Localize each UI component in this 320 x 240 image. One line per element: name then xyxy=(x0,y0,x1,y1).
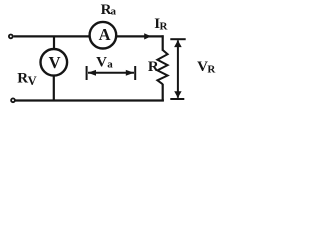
label IR xyxy=(154,16,168,33)
svg-text:V: V xyxy=(28,74,37,88)
voltmeter U2 xyxy=(41,49,68,76)
wire voltmeter branch top xyxy=(53,36,55,49)
svg-text:R: R xyxy=(17,70,28,86)
svg-text:R: R xyxy=(207,64,216,76)
svg-text:V: V xyxy=(49,53,61,72)
label RV xyxy=(17,70,36,88)
wire bottom xyxy=(16,99,164,101)
VR dimension arrow xyxy=(170,39,185,99)
ammeter U1 xyxy=(90,22,117,49)
svg-text:a: a xyxy=(111,5,117,17)
wire resistor to bottom wire xyxy=(162,84,164,101)
svg-text:R: R xyxy=(160,21,169,33)
svg-text:a: a xyxy=(107,58,113,70)
bottom-left terminal xyxy=(11,98,15,102)
label Va xyxy=(96,54,113,70)
svg-text:A: A xyxy=(99,25,111,44)
wire voltmeter branch bottom xyxy=(53,76,55,102)
Va dimension arrow xyxy=(87,66,136,80)
wire top from terminal to ammeter xyxy=(14,35,90,37)
top-left terminal xyxy=(9,35,13,39)
svg-text:R: R xyxy=(148,59,159,75)
label VR xyxy=(197,59,216,75)
resistor R xyxy=(157,50,167,84)
wire right corner down to resistor xyxy=(162,35,164,51)
svg-text:V: V xyxy=(96,54,107,70)
wire ammeter to corner with current arrow xyxy=(116,33,164,39)
label Ra xyxy=(101,2,117,18)
